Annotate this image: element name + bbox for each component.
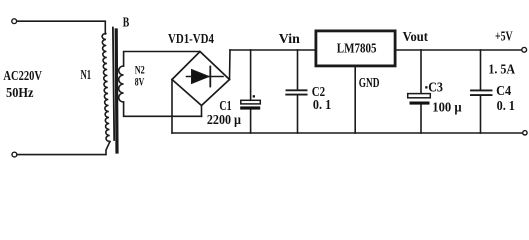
C3 polarity dot xyxy=(425,86,427,88)
label 50Hz xyxy=(6,85,34,100)
svg-text:Vin: Vin xyxy=(279,31,300,46)
svg-text:C3: C3 xyxy=(428,80,443,95)
svg-text:LM7805: LM7805 xyxy=(337,41,377,56)
capacitor C1 leads xyxy=(250,50,252,133)
GND pin wire of LM7805 xyxy=(354,67,356,133)
bridge rectifier VD1-VD4 xyxy=(172,52,230,106)
wire: Vin rail (bridge to LM7805) xyxy=(230,49,315,51)
svg-text:Vout: Vout xyxy=(403,29,429,44)
capacitor C4 plates xyxy=(471,90,492,95)
capacitor C2 plates xyxy=(286,90,306,94)
svg-text:B: B xyxy=(123,14,130,29)
label Vin xyxy=(279,31,300,46)
capacitor C3 plates (electrolytic) xyxy=(408,94,431,105)
input terminal bottom-left xyxy=(12,152,17,157)
label Vout xyxy=(403,29,429,44)
transformer primary winding N1 xyxy=(102,34,110,142)
capacitor C4 leads xyxy=(480,50,482,133)
svg-text:C4: C4 xyxy=(496,83,511,98)
wire: Vout rail (LM7805 to +5V terminal) xyxy=(396,49,522,51)
label C1 xyxy=(219,98,231,113)
svg-text:2200 µ: 2200 µ xyxy=(207,112,241,127)
svg-text:0. 1: 0. 1 xyxy=(497,98,516,113)
output terminal top-right xyxy=(522,47,527,52)
label 0.1 (C4) xyxy=(497,98,516,113)
wire: secondary bottom to bridge AC node (bottom vertex riser) xyxy=(124,102,202,116)
ground rail (bottom) xyxy=(172,132,523,134)
svg-text:0. 1: 0. 1 xyxy=(313,97,332,112)
label 8V xyxy=(135,75,145,89)
capacitor C2 leads xyxy=(297,50,299,133)
output terminal bottom-right xyxy=(523,131,527,135)
transformer secondary winding N2 xyxy=(119,66,124,102)
label GND xyxy=(359,75,380,90)
svg-text:VD1-VD4: VD1-VD4 xyxy=(168,31,214,46)
label C2 xyxy=(312,84,326,99)
svg-text:N1: N1 xyxy=(81,67,92,82)
wire: secondary top to bridge AC node (top vertex) xyxy=(124,52,200,67)
svg-text:+5V: +5V xyxy=(495,29,513,44)
label N2 xyxy=(135,63,145,77)
label +5V xyxy=(495,29,513,44)
wire: bridge - (left vertex) drop to ground rail xyxy=(171,80,173,134)
wire: primary bottom to bottom-left terminal xyxy=(17,142,110,155)
svg-text:AC220V: AC220V xyxy=(3,68,42,83)
svg-text:C1: C1 xyxy=(219,98,231,113)
svg-text:1. 5A: 1. 5A xyxy=(488,61,515,76)
label VD1-VD4 xyxy=(168,31,214,46)
wire: top-left terminal to transformer primary top xyxy=(17,21,106,34)
transformer core xyxy=(113,28,117,153)
label 1.5A xyxy=(488,61,515,76)
C1 polarity dot xyxy=(253,95,255,97)
label C3 xyxy=(428,80,443,95)
svg-text:50Hz: 50Hz xyxy=(6,85,34,100)
label AC220V xyxy=(3,68,42,83)
diode symbol inside bridge xyxy=(187,67,224,87)
label N1 xyxy=(81,67,92,82)
label LM7805 xyxy=(337,41,377,56)
input terminal top-left xyxy=(12,19,17,24)
capacitor C3 leads xyxy=(420,50,422,133)
label C4 xyxy=(496,83,511,98)
label 0.1 (C2) xyxy=(313,97,332,112)
capacitor C1 plates (electrolytic) xyxy=(240,100,260,109)
wire: bridge bottom vertex to AC return xyxy=(201,106,203,117)
label B xyxy=(123,14,130,29)
svg-text:GND: GND xyxy=(359,75,380,90)
label 100u xyxy=(432,100,462,115)
svg-text:8V: 8V xyxy=(135,75,145,89)
svg-text:100 µ: 100 µ xyxy=(432,100,462,115)
wire: bridge + output (right vertex) riser to Vin rail xyxy=(229,50,232,80)
label 2200u xyxy=(207,112,241,127)
op-amp/regulator U1 LM7805 box xyxy=(316,31,395,66)
